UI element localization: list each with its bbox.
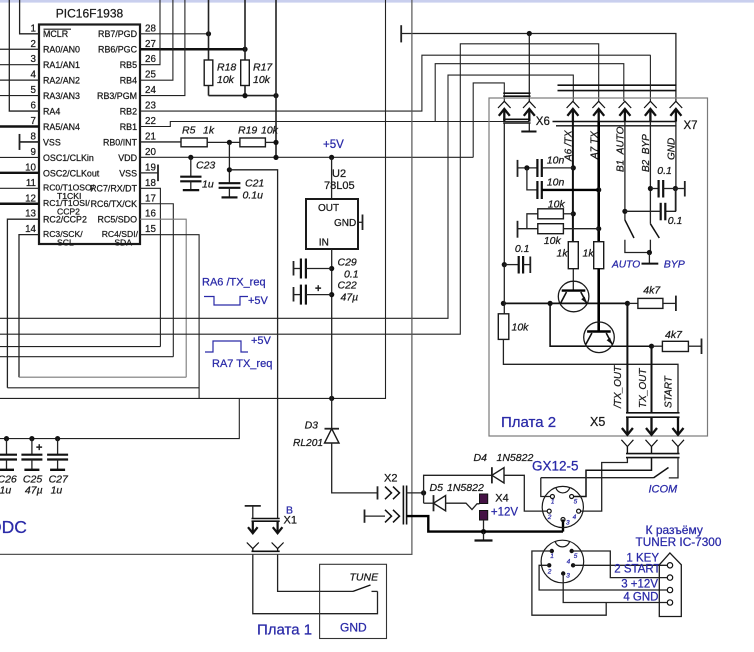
terminal bar GND top-left [400, 25, 402, 42]
wire R18 column from top edge [208, 0, 210, 60]
wire band line L1 (y318.3) to staircase A6 /TX [0, 75, 573, 318]
svg-text:RA6 /TX_req: RA6 /TX_req [202, 277, 266, 289]
node junction RB6/R17 [242, 47, 247, 52]
svg-text:3: 3 [566, 520, 570, 527]
voltage regulator U2 body [306, 199, 358, 249]
svg-text:1k: 1k [203, 125, 215, 137]
capacitor C26 lead [6, 439, 8, 455]
diode D4 triangle [492, 468, 504, 483]
connector X6 upper bus lines [503, 92, 530, 94]
wire RC2 pin13 down-left [7, 219, 39, 388]
svg-text:16: 16 [145, 209, 156, 220]
connector X6 lower bus lines [503, 118, 530, 120]
board outline Plata 2 [489, 98, 708, 436]
svg-text:1u: 1u [202, 178, 214, 190]
svg-text:RA7 TX_req: RA7 TX_req [212, 358, 272, 370]
wire +5V pullup column from top edge [275, 0, 277, 157]
wire RB5 pin26 up to top edge [140, 0, 160, 65]
svg-text:+5V: +5V [323, 139, 344, 151]
wire DIN pin2 to +12V row [539, 565, 667, 590]
resistor R18 body [204, 60, 213, 86]
connector tuner plug hole 3 [667, 587, 672, 592]
svg-text:10k: 10k [544, 235, 562, 247]
connector X5 mating chevrons [621, 440, 633, 447]
terminal bar 4k7-1 [675, 296, 677, 311]
wire X4 bottom lead [483, 520, 485, 532]
wire DIN pin5 to START row [572, 551, 668, 578]
waveform RA6 negative pulse [204, 297, 248, 306]
wire OSC1 pin9 to left edge [0, 156, 39, 158]
switch AUTO contact bracket [625, 240, 650, 253]
svg-text:23: 23 [145, 101, 156, 112]
resistor R19 body [240, 138, 266, 147]
terminal bar 0.1 left [529, 257, 531, 274]
svg-text:3: 3 [31, 54, 37, 65]
transistor Q1 emitter with arrow [581, 292, 587, 303]
wire R5 to R19 [207, 141, 240, 143]
svg-text:MCLR: MCLR [43, 29, 68, 39]
wire TX_OUT step down to GX pin5 [574, 458, 652, 497]
transistor Q1 circle [558, 281, 589, 312]
node junction X6col/0.1 [502, 262, 507, 267]
svg-text:15: 15 [145, 224, 156, 235]
ground bar under X6 pin2 [521, 131, 536, 133]
connector X5 pin 2 arrow [650, 417, 652, 435]
svg-text:Плата 2: Плата 2 [501, 414, 556, 431]
capacitor 0.1 left plates [518, 256, 520, 274]
capacitor C25 lead [31, 439, 33, 455]
svg-text:+12V: +12V [491, 507, 519, 519]
svg-text:47µ: 47µ [341, 292, 359, 304]
connector X7 pin 1 symbol [567, 101, 580, 108]
wire MCLR pin1 from top [20, 0, 39, 34]
connector DIN pin 1 [550, 549, 554, 553]
svg-text:10k: 10k [217, 74, 235, 86]
svg-text:1u: 1u [51, 484, 63, 496]
capacitor C29 right wire [306, 268, 332, 270]
node junction Q1 row left [501, 301, 506, 306]
diode D4 cathode bar [491, 467, 493, 483]
wire net B to X1 right pin [229, 170, 277, 519]
switch ICOM blade [654, 468, 669, 478]
svg-text:RC2/CCP2: RC2/CCP2 [43, 215, 87, 225]
svg-text:10n: 10n [547, 177, 565, 189]
node junction A6/C 10n-1 [571, 165, 576, 170]
svg-text:R5: R5 [182, 125, 196, 137]
svg-text:1: 1 [31, 23, 36, 34]
svg-text:RB4: RB4 [120, 76, 137, 86]
wire 10n-2 right to A7 thick [542, 189, 599, 191]
connector X7 pin 3 symbol [619, 101, 632, 108]
capacitor C27 bottom lead and ground bar [57, 460, 59, 470]
wire 10n-1 left [518, 167, 538, 169]
node junction Q2/4k7-2 [649, 344, 654, 349]
node junction pullup rail at x276 [273, 93, 278, 98]
svg-text:X5: X5 [590, 415, 605, 429]
wire VSS pin19 stub [140, 172, 158, 174]
wire RC1 pin12 to left edge [0, 203, 39, 205]
svg-text:RB1: RB1 [120, 122, 137, 132]
wire X6 pin2 to ground bar [528, 123, 530, 131]
capacitor 10n-2 plates [536, 181, 538, 199]
svg-text:26: 26 [145, 54, 156, 65]
connector DIN pin 5 [570, 549, 574, 553]
capacitor C21 bottom lead and ground bar [228, 188, 230, 197]
svg-text:17: 17 [145, 193, 156, 204]
node junction GND/X6 pin2 [527, 31, 532, 36]
svg-text:RB3/PGM: RB3/PGM [97, 91, 137, 101]
transistor Q2 collector [586, 333, 592, 344]
svg-text:1k: 1k [557, 248, 569, 260]
svg-text:+5V: +5V [251, 335, 272, 347]
node junction +12V/D3 column [329, 396, 334, 401]
connector X7 pin 5 symbol [670, 101, 683, 108]
svg-text:2: 2 [547, 514, 552, 521]
svg-text:TUNER IC-7300: TUNER IC-7300 [636, 535, 722, 549]
connector X2 lower pin chevrons [385, 510, 392, 523]
capacitor C22 right wire [306, 294, 332, 296]
connector DIN pin 3 [561, 571, 565, 575]
wire KEY line to blade pivot [541, 477, 654, 479]
wire X2 lower pin lead [365, 515, 386, 517]
wire R17 column from top edge [244, 0, 246, 60]
wire DIN pin1 big U to GND row [532, 551, 606, 615]
svg-text:RC6/TX/CK: RC6/TX/CK [91, 199, 137, 209]
svg-text:4k7: 4k7 [665, 329, 683, 341]
svg-text:1N5822: 1N5822 [447, 482, 484, 494]
wire X6 pin1 column down into board [503, 123, 505, 265]
node junction X4/GND line [481, 529, 486, 534]
transistor Q2 circle [584, 322, 615, 353]
connector GX12-5 circle [542, 486, 583, 527]
connector GX12-5 key notch [556, 488, 570, 493]
svg-text:RB5: RB5 [120, 60, 137, 70]
capacitor C26 plates [0, 454, 17, 456]
capacitor C25 bottom lead and ground bar [31, 460, 33, 470]
wire GND top line [401, 34, 676, 102]
capacitor C29 terminal bar [293, 261, 295, 276]
svg-text:RA1/AN1: RA1/AN1 [43, 60, 80, 70]
node junction R5/R19/C21 [227, 140, 232, 145]
connector X4 body upper contact [480, 494, 488, 504]
capacitor C21 top lead [228, 142, 230, 183]
node junction B1/C 0.1 lower [622, 209, 627, 214]
capacitor C23 plates [180, 176, 201, 178]
node junction rail/C27 [55, 436, 60, 441]
terminal bar VSS pin8 [19, 134, 21, 150]
connector X7 upper bus lines [558, 84, 677, 86]
wire 0.1 left right lead [523, 264, 530, 266]
svg-text:VDD: VDD [118, 153, 137, 163]
connector DIN plug key notch [555, 542, 569, 547]
transistor Q1 collector [561, 292, 567, 303]
wire VDD pin20 +5V rail [140, 156, 473, 158]
svg-text:5: 5 [31, 85, 37, 96]
wire DIN pin3 to GND row [563, 574, 667, 603]
wire START column to contact [669, 458, 678, 478]
svg-text:GND: GND [334, 218, 356, 229]
svg-text:18: 18 [145, 178, 156, 189]
connector X2 bus lines [402, 486, 404, 525]
wire U2 GND stub and terminal bar [358, 221, 363, 223]
wire X6 pin1 feed from +5V rail [473, 83, 504, 157]
svg-text:10k: 10k [253, 74, 271, 86]
svg-text:RA0/AN0: RA0/AN0 [43, 45, 80, 55]
wire 4k7-2 right lead [688, 345, 701, 347]
svg-text:+: + [36, 442, 42, 454]
svg-text:VSS: VSS [43, 137, 61, 147]
svg-text:+5V: +5V [248, 295, 269, 307]
IC U1 PIC16F1938 body [39, 25, 140, 245]
capacitor C22 terminal bar [293, 287, 295, 302]
wire RB3 pin24 up to top edge [140, 0, 185, 96]
ground symbol X4 [483, 532, 485, 541]
diode D3 triangle [325, 429, 340, 443]
wire R18 bottom lead [208, 86, 210, 96]
svg-text:2 START: 2 START [614, 564, 660, 576]
connector X1 pin arrows down [252, 521, 254, 533]
svg-text:4: 4 [31, 70, 37, 81]
wire GND stub to bar [675, 188, 684, 190]
connector GX12-5 pin 5 [570, 495, 574, 499]
connector X5 lower bus lines [626, 453, 680, 455]
wire X6 column to 10k [503, 265, 505, 314]
node junction C29 [329, 266, 334, 271]
connector X5 bus lines [626, 412, 680, 414]
svg-text:3: 3 [566, 573, 570, 580]
waveform RA7 positive pulse [205, 341, 248, 352]
svg-text:2: 2 [31, 39, 36, 50]
wire pin4 to left edge [0, 79, 39, 81]
wire switch common to ground [648, 253, 650, 264]
svg-text:C22: C22 [338, 280, 357, 292]
node junction C22 [329, 292, 334, 297]
wire RC0 pin11 to left edge [0, 187, 39, 189]
wire R17 bottom lead [244, 86, 246, 96]
node junction Q1 row mid [548, 301, 553, 306]
svg-text:AUTO: AUTO [611, 260, 640, 271]
connector GX12-5 pin 2 [547, 509, 551, 513]
resistor R17 body [241, 60, 250, 86]
svg-text:6: 6 [31, 101, 37, 112]
node junction rail/pullup column [273, 155, 278, 160]
wire band line L2 (y334.2) to staircase A7 TX [0, 44, 599, 334]
capacitor C25 plates [21, 454, 42, 456]
wire GX pin1 riser [541, 478, 551, 497]
svg-text:C29: C29 [338, 257, 357, 269]
terminal bar 10n-1 [517, 160, 519, 177]
svg-text:GX12-5: GX12-5 [532, 459, 579, 474]
wire 0.1 upper left from B2 [650, 188, 658, 190]
wire X7 pin4 B2_BYP drop from staircase [649, 55, 651, 101]
svg-text:1u: 1u [0, 484, 11, 496]
wire /TX_OUT to GX pin4 [581, 458, 628, 512]
svg-text:24: 24 [145, 85, 156, 96]
svg-text:RB6/PGC: RB6/PGC [98, 45, 138, 55]
wire TX_OUT column [651, 346, 653, 412]
wire to D4 anode row [424, 475, 492, 493]
wire RB7 pin28 to R18 column [140, 33, 209, 35]
wire +5V rail to U2 OUT [331, 157, 333, 199]
wire Q2 emitter row [586, 345, 652, 347]
wire /TX_OUT column [626, 303, 628, 412]
svg-text:1N5822: 1N5822 [497, 452, 534, 464]
wire band line L4 (y356.7) from left edge [0, 356, 173, 358]
svg-text:OSC1/CLKin: OSC1/CLKin [43, 153, 94, 163]
switch BYP contact bracket [649, 240, 651, 253]
capacitor C21 plates [219, 182, 241, 184]
wire RB2 pin23 long to staircase [140, 55, 651, 111]
connector DIN pin 2 [547, 563, 551, 567]
node junction 10n caps left [524, 165, 529, 170]
diode D5 triangle [434, 496, 446, 511]
svg-text:1: 1 [551, 499, 555, 506]
terminal bar X2 upper pin [377, 486, 379, 499]
svg-text:D3: D3 [305, 420, 319, 432]
svg-text:RC7/RX/DT: RC7/RX/DT [90, 184, 137, 194]
capacitor C29 left wire [294, 268, 301, 270]
wire net B2 column [649, 122, 651, 224]
svg-text:19: 19 [145, 162, 156, 173]
node junction rail/C23 [188, 155, 193, 160]
svg-text:R19: R19 [238, 125, 257, 137]
wire 1k-1 to Q1 base [572, 269, 574, 291]
svg-text:D5: D5 [430, 482, 444, 494]
capacitor C22 plates [300, 285, 302, 305]
node junction A6/R 10k-1 [571, 211, 576, 216]
resistor 4k7-1 body [638, 298, 663, 308]
svg-text:RB7/PGD: RB7/PGD [98, 29, 137, 39]
connector tuner plug hole 2 [667, 575, 672, 580]
resistor 10k-2 body [538, 224, 564, 234]
svg-text:X2: X2 [384, 473, 397, 485]
wire net GND column in board [675, 122, 677, 212]
connector X6 pin 2 symbol [523, 101, 536, 108]
wire D5 anode lead [424, 502, 434, 504]
svg-text:X4: X4 [495, 493, 508, 505]
connector X6 pin 1 symbol [498, 101, 511, 108]
wire X6 pin2 column [528, 34, 530, 102]
svg-text:4: 4 [573, 514, 577, 521]
wire X1 left pin down to TUNE box [253, 554, 378, 613]
svg-text:13: 13 [25, 209, 36, 220]
svg-text:14: 14 [25, 224, 36, 235]
connector GX12-5 pin 3 [561, 518, 565, 522]
svg-text:SCL: SCL [57, 237, 74, 247]
wire 0.1 left cap lead [504, 264, 518, 266]
resistor 4k7-2 body [662, 341, 688, 351]
terminal bar GND 0.1 [684, 181, 686, 197]
wire D5 to X4 with kink [446, 503, 480, 509]
node junction X2/D4/D5 [421, 490, 426, 495]
svg-text:D4: D4 [474, 452, 488, 464]
node junction rail/C25 [29, 436, 34, 441]
wire RC3 pin14 down-left [19, 235, 39, 378]
terminal bar X1 left pin [245, 505, 261, 507]
switch TUNE blade [353, 585, 371, 591]
svg-text:5: 5 [574, 553, 578, 560]
connector tuner plug hole 1 [667, 563, 672, 568]
node junction rail/C26 [4, 436, 9, 441]
svg-text:0.1u: 0.1u [243, 189, 264, 201]
wire RB1 pin22 jog and long line to X6 area [140, 122, 529, 127]
svg-text:X1: X1 [284, 515, 297, 527]
wire long line through X1 to gray riser [0, 0, 412, 554]
svg-text:VSS: VSS [119, 168, 137, 178]
svg-text:+: + [315, 283, 321, 295]
ground bar AUTO/BYP [642, 263, 659, 265]
wire 10k-1 right to A6 [563, 213, 573, 215]
wire R19 right lead [265, 141, 276, 143]
connector DIN plug circle [541, 540, 584, 583]
wire RC4 pin15 down to +12V line [140, 235, 199, 399]
capacitor C29 plates [300, 259, 302, 279]
svg-text:RA3/AN3: RA3/AN3 [43, 91, 80, 101]
svg-text:IN: IN [319, 238, 329, 249]
diode D3 cathode bar [325, 428, 340, 430]
svg-text:1k: 1k [583, 248, 595, 260]
svg-text:ICOM: ICOM [649, 484, 679, 496]
resistor 1k-1 body [568, 242, 578, 269]
svg-text:Плата 1: Плата 1 [257, 622, 312, 639]
connector X7 lower bus lines [553, 121, 677, 123]
svg-text:9: 9 [31, 147, 36, 158]
svg-text:/TX_OUT: /TX_OUT [613, 365, 624, 409]
resistor 10k-1 body [538, 209, 564, 219]
resistor R5 body [181, 138, 207, 147]
connector GX12-5 pin 1 [550, 495, 554, 499]
transistor Q2 emitter with arrow [606, 333, 612, 344]
terminal bar X2 lower pin [364, 510, 366, 523]
node junction Q1 row right [625, 301, 630, 306]
svg-text:RA5/AN4: RA5/AN4 [43, 122, 80, 132]
svg-text:R18: R18 [217, 62, 236, 74]
wire 4k7-2 left lead [652, 345, 663, 347]
wire net A6 column [572, 122, 574, 242]
terminal bar VSS pin19 [157, 165, 159, 182]
board outline TUNE box [320, 564, 387, 638]
svg-text:START: START [664, 375, 675, 408]
connector X5 pin 3 arrow [677, 417, 679, 435]
svg-text:0.1: 0.1 [515, 243, 530, 255]
wire RB4 pin25 up to top edge [140, 0, 173, 80]
wire 10k-1 left lead [527, 214, 538, 229]
wire pin2 to left edge [0, 48, 39, 50]
wire 10n-1 right to A6 [542, 167, 574, 169]
svg-text:21: 21 [145, 131, 156, 142]
svg-text:4: 4 [567, 558, 571, 565]
wire caps rail drop from +12V line [0, 398, 239, 438]
wire 4k7-1 right lead [663, 302, 676, 304]
wire staircase B1 AUTO from RB1 line [435, 64, 624, 122]
svg-text:10k: 10k [261, 125, 279, 137]
connector X4 body lower contact [480, 511, 488, 521]
svg-text:4k7: 4k7 [643, 285, 661, 297]
wire 0.1 upper right to GND column [663, 188, 675, 190]
switch BYP blade [650, 224, 659, 238]
svg-text:5: 5 [574, 499, 578, 506]
svg-text:RC5/SDO: RC5/SDO [98, 215, 138, 225]
svg-text:TX_OUT: TX_OUT [638, 368, 649, 408]
svg-text:4 GND: 4 GND [623, 592, 658, 604]
node junction C21/X1-B wire [227, 167, 232, 172]
svg-text:0.1: 0.1 [657, 165, 672, 177]
node junction R19/+5V column [273, 140, 278, 145]
wire 10n-2 left drop [527, 168, 538, 190]
wire X2 upper pin to D4/D5 node [407, 492, 424, 494]
connector X2 upper pin chevrons [385, 487, 392, 500]
svg-text:1: 1 [550, 553, 554, 560]
